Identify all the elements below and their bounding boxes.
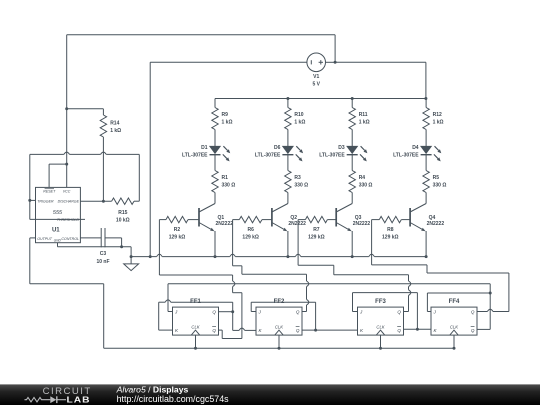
svg-text:Q: Q <box>212 310 216 315</box>
svg-text:LTL-307EE: LTL-307EE <box>182 153 208 159</box>
svg-text:2N2222: 2N2222 <box>427 221 445 227</box>
svg-text:10 kΩ: 10 kΩ <box>116 218 130 224</box>
svg-text:Q: Q <box>397 328 401 333</box>
svg-text:129 kΩ: 129 kΩ <box>308 234 325 240</box>
svg-text:10 nF: 10 nF <box>96 259 109 265</box>
svg-text:GND: GND <box>54 239 62 243</box>
svg-text:D3: D3 <box>338 145 345 151</box>
svg-text:LAB: LAB <box>67 396 91 405</box>
svg-text:FF3: FF3 <box>375 299 386 305</box>
svg-text:R9: R9 <box>222 112 229 118</box>
svg-text:FF4: FF4 <box>449 299 460 305</box>
svg-text:C3: C3 <box>100 251 107 257</box>
svg-text:330 Ω: 330 Ω <box>222 183 236 189</box>
svg-text:129 kΩ: 129 kΩ <box>169 234 186 240</box>
svg-text:R3: R3 <box>294 175 301 181</box>
svg-text:R8: R8 <box>387 227 394 233</box>
svg-text:THRESHOLD: THRESHOLD <box>57 218 80 222</box>
svg-text:R6: R6 <box>247 227 254 233</box>
svg-text:2N2222: 2N2222 <box>353 221 371 227</box>
svg-text:U1: U1 <box>52 227 60 233</box>
svg-text:2N2222: 2N2222 <box>288 221 306 227</box>
svg-text:R15: R15 <box>118 210 127 216</box>
svg-text:1 kΩ: 1 kΩ <box>359 120 370 126</box>
svg-text:Q: Q <box>296 328 300 333</box>
svg-text:1 kΩ: 1 kΩ <box>110 128 121 134</box>
svg-text:CLK: CLK <box>275 324 283 329</box>
svg-text:555: 555 <box>53 210 63 216</box>
svg-text:R2: R2 <box>174 227 181 233</box>
svg-text:R11: R11 <box>359 112 368 118</box>
svg-text:RESET: RESET <box>43 190 56 194</box>
svg-text:330 Ω: 330 Ω <box>294 183 308 189</box>
svg-text:D1: D1 <box>201 145 208 151</box>
svg-text:VCC: VCC <box>63 190 71 194</box>
svg-text:CONTROL: CONTROL <box>61 237 79 241</box>
svg-text:R5: R5 <box>433 175 440 181</box>
svg-text:Q: Q <box>212 328 216 333</box>
svg-text:R1: R1 <box>222 175 229 181</box>
svg-text:1 kΩ: 1 kΩ <box>222 120 233 126</box>
svg-text:DISCHARGE: DISCHARGE <box>58 200 80 204</box>
svg-text:R7: R7 <box>313 227 320 233</box>
svg-text:D6: D6 <box>274 145 281 151</box>
svg-text:Q: Q <box>471 328 475 333</box>
svg-text:Q4: Q4 <box>429 215 436 221</box>
svg-text:Q2: Q2 <box>290 215 297 221</box>
svg-text:R14: R14 <box>110 121 119 127</box>
svg-text:D4: D4 <box>412 145 419 151</box>
svg-text:LTL-307EE: LTL-307EE <box>255 153 281 159</box>
svg-text:129 kΩ: 129 kΩ <box>242 234 259 240</box>
svg-text:Q: Q <box>296 310 300 315</box>
svg-text:OUTPUT: OUTPUT <box>37 237 53 241</box>
svg-text:Q: Q <box>397 310 401 315</box>
svg-text:Q: Q <box>471 310 475 315</box>
svg-text:2N2222: 2N2222 <box>216 221 234 227</box>
svg-text:http://circuitlab.com/cgc574s: http://circuitlab.com/cgc574s <box>117 394 230 404</box>
svg-text:R10: R10 <box>294 112 303 118</box>
svg-text:R4: R4 <box>359 175 366 181</box>
svg-text:LTL-307EE: LTL-307EE <box>319 153 345 159</box>
svg-text:330 Ω: 330 Ω <box>359 183 373 189</box>
svg-text:1 kΩ: 1 kΩ <box>433 120 444 126</box>
svg-text:Alvaro5 / Displays: Alvaro5 / Displays <box>116 385 189 395</box>
svg-text:Q1: Q1 <box>218 215 225 221</box>
svg-text:TRIGGER: TRIGGER <box>37 200 54 204</box>
svg-text:CLK: CLK <box>450 324 458 329</box>
svg-text:129 kΩ: 129 kΩ <box>382 234 399 240</box>
svg-text:R12: R12 <box>433 112 442 118</box>
svg-text:CLK: CLK <box>376 324 384 329</box>
svg-text:5 V: 5 V <box>312 81 320 87</box>
svg-text:LTL-307EE: LTL-307EE <box>393 153 419 159</box>
svg-text:CLK: CLK <box>191 324 199 329</box>
svg-text:Q3: Q3 <box>355 215 362 221</box>
svg-text:330 Ω: 330 Ω <box>433 183 447 189</box>
svg-text:1 kΩ: 1 kΩ <box>294 120 305 126</box>
svg-text:V1: V1 <box>313 74 319 80</box>
